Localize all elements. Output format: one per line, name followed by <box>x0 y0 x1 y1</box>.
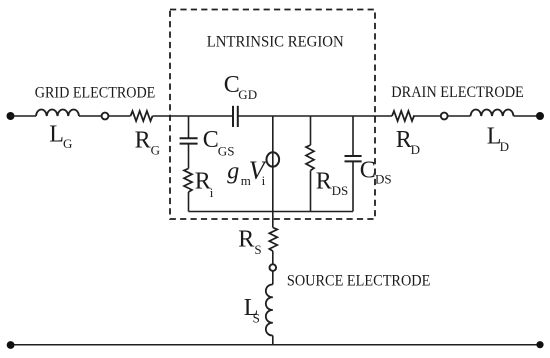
bottom right terminal dot <box>536 341 543 348</box>
label CGS <box>203 127 235 159</box>
wire LD to drain terminal <box>514 115 541 117</box>
svg-text:SOURCE ELECTRODE: SOURCE ELECTRODE <box>287 273 431 290</box>
capacitor CDS <box>345 156 362 161</box>
capacitor CGD <box>233 106 238 127</box>
svg-text:R: R <box>316 169 332 195</box>
bottom source line <box>11 344 541 346</box>
svg-text:g: g <box>227 159 239 185</box>
svg-text:DRAIN ELECTRODE: DRAIN ELECTRODE <box>391 84 524 101</box>
svg-text:C: C <box>360 158 376 184</box>
svg-text:DS: DS <box>332 183 349 198</box>
label RDS <box>316 169 348 198</box>
label RD <box>396 127 420 157</box>
svg-text:R: R <box>135 128 151 154</box>
svg-text:G: G <box>151 143 160 158</box>
wire node to LS <box>272 271 274 285</box>
resistor RS <box>269 228 277 251</box>
wire node to RG <box>108 115 130 117</box>
label RG <box>135 128 160 158</box>
label gmVi <box>227 156 267 188</box>
label RS <box>238 227 261 257</box>
inductor LD <box>471 109 514 116</box>
svg-text:R: R <box>238 227 254 253</box>
wire RDS branch upper <box>310 116 312 145</box>
svg-text:R: R <box>396 127 412 153</box>
current source gmVi circle <box>267 152 280 166</box>
svg-text:DS: DS <box>375 172 392 187</box>
wire grid terminal to LG <box>11 115 37 117</box>
svg-text:R: R <box>195 169 211 195</box>
label Ri <box>195 169 214 201</box>
dashed box: intrinsic region boundary <box>170 10 375 220</box>
capacitor CGS <box>180 138 198 143</box>
svg-text:S: S <box>254 242 261 257</box>
svg-text:i: i <box>210 185 214 200</box>
grid terminal dot <box>7 112 15 120</box>
resistor RD <box>392 111 414 121</box>
resistor RG <box>131 111 153 121</box>
svg-text:C: C <box>203 127 219 153</box>
wire node to LD <box>447 115 470 117</box>
svg-text:G: G <box>63 136 72 151</box>
wire CGS branch upper <box>188 116 190 138</box>
resistor RDS <box>306 145 314 170</box>
resistor Ri <box>184 169 192 192</box>
wire rail to RS <box>272 212 274 228</box>
svg-text:GD: GD <box>238 87 257 102</box>
node open circle (grid side) <box>102 113 109 120</box>
wire Ri to bottom rail <box>188 192 190 212</box>
svg-text:D: D <box>411 142 420 157</box>
bottom rail wire inside box <box>189 211 354 213</box>
wire RS to node <box>272 251 274 265</box>
drain terminal dot <box>536 112 544 120</box>
wire current-source branch <box>272 116 274 212</box>
wire LS to bottom line <box>272 336 274 345</box>
node open circle (source side) <box>270 264 277 271</box>
svg-text:D: D <box>500 139 509 154</box>
svg-text:GS: GS <box>218 144 235 159</box>
svg-text:GRID ELECTRODE: GRID ELECTRODE <box>35 84 156 101</box>
wire LG to node <box>79 115 102 117</box>
label CGD <box>224 72 257 102</box>
label LD <box>487 124 509 154</box>
wire CGS to Ri <box>188 144 190 169</box>
label LG <box>49 122 72 152</box>
svg-text:S: S <box>253 310 260 325</box>
label LS <box>244 295 260 325</box>
wire RG to CGD left plate <box>153 115 234 117</box>
wire RD to node <box>413 115 441 117</box>
node open circle (drain side) <box>441 113 448 120</box>
bottom left terminal dot <box>7 341 15 349</box>
svg-text:LNTRINSIC REGION: LNTRINSIC REGION <box>207 34 344 51</box>
svg-text:L: L <box>49 122 64 148</box>
inductor LG <box>36 109 79 116</box>
wire CGD right plate to RD <box>238 115 392 117</box>
label CDS <box>360 158 392 187</box>
wire CDS branch upper <box>352 116 354 156</box>
inductor LS <box>266 284 273 335</box>
wire RDS to bottom rail <box>310 171 312 212</box>
svg-text:i: i <box>262 173 266 188</box>
wire CDS to bottom rail <box>352 161 354 211</box>
